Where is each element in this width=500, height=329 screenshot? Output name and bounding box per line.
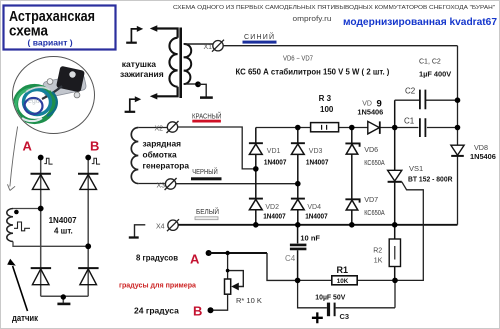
svg-text:1N4007: 1N4007 bbox=[306, 157, 329, 166]
svg-text:10µF 50V: 10µF 50V bbox=[315, 293, 345, 302]
svg-text:обмотка: обмотка bbox=[143, 150, 177, 160]
svg-text:СХЕМА ОДНОГО ИЗ ПЕРВЫХ САМОДЕЛ: СХЕМА ОДНОГО ИЗ ПЕРВЫХ САМОДЕЛЬНЫХ ПЯТИВ… bbox=[173, 5, 495, 11]
svg-text:VD: VD bbox=[362, 101, 372, 108]
svg-text:СИНИЙ: СИНИЙ bbox=[244, 32, 274, 41]
svg-text:R1: R1 bbox=[337, 265, 349, 275]
svg-text:egu: egu bbox=[28, 98, 40, 105]
svg-text:BT 152 - 800R: BT 152 - 800R bbox=[408, 174, 453, 183]
svg-text:C2: C2 bbox=[405, 87, 416, 96]
svg-text:10K: 10K bbox=[337, 278, 349, 285]
svg-text:VS1: VS1 bbox=[409, 164, 423, 173]
svg-text:VD3: VD3 bbox=[309, 148, 323, 155]
svg-text:зажигания: зажигания bbox=[120, 69, 164, 79]
svg-text:1N4007: 1N4007 bbox=[263, 211, 286, 220]
svg-text:зарядная: зарядная bbox=[143, 139, 182, 149]
svg-text:omprofy.ru: omprofy.ru bbox=[293, 14, 332, 23]
svg-text:C3: C3 bbox=[340, 312, 350, 321]
svg-text:В: В bbox=[193, 304, 202, 319]
svg-text:100: 100 bbox=[320, 105, 334, 114]
svg-text:10 nF: 10 nF bbox=[300, 234, 320, 243]
svg-text:С4: С4 bbox=[285, 254, 296, 263]
svg-text:генератора: генератора bbox=[143, 161, 190, 171]
svg-text:1N5406: 1N5406 bbox=[470, 152, 496, 161]
svg-text:1N4007: 1N4007 bbox=[49, 216, 78, 225]
svg-text:КРАСНЫЙ: КРАСНЫЙ bbox=[192, 111, 222, 120]
svg-text:24 градуса: 24 градуса bbox=[134, 306, 179, 316]
svg-text:1K: 1K bbox=[374, 257, 383, 264]
svg-text:X1: X1 bbox=[204, 44, 213, 51]
svg-text:катушка: катушка bbox=[122, 59, 156, 69]
svg-text:R2: R2 bbox=[373, 248, 382, 255]
svg-text:R* 10 K: R* 10 K bbox=[236, 296, 262, 305]
svg-text:БЕЛЫЙ: БЕЛЫЙ bbox=[196, 207, 219, 216]
svg-text:X3: X3 bbox=[157, 183, 166, 190]
svg-text:модернизированная kvadrat67: модернизированная kvadrat67 bbox=[343, 17, 498, 28]
svg-text:КС650А: КС650А bbox=[364, 210, 385, 217]
svg-text:X4: X4 bbox=[156, 224, 165, 231]
svg-text:X2: X2 bbox=[155, 126, 164, 133]
svg-text:А: А bbox=[190, 252, 200, 267]
svg-text:VD1: VD1 bbox=[267, 148, 281, 155]
svg-text:КС 650 А стабилитрон 150 V: КС 650 А стабилитрон 150 V 5 W ( 2 шт. ) bbox=[236, 68, 390, 77]
svg-text:1N4007: 1N4007 bbox=[264, 157, 287, 166]
svg-text:( вариант ): ( вариант ) bbox=[28, 37, 73, 47]
svg-text:VD6: VD6 bbox=[364, 145, 378, 154]
svg-text:А: А bbox=[23, 139, 33, 154]
svg-text:градусы для примера: градусы для примера bbox=[119, 281, 197, 290]
svg-text:C1: C1 bbox=[404, 117, 415, 126]
svg-text:C1, C2: C1, C2 bbox=[419, 59, 441, 66]
svg-text:1µF 400V: 1µF 400V bbox=[419, 70, 451, 79]
svg-text:КС650А: КС650А bbox=[364, 160, 385, 167]
svg-text:ЧЕРНЫЙ: ЧЕРНЫЙ bbox=[192, 167, 218, 176]
svg-text:8 градусов: 8 градусов bbox=[136, 253, 178, 263]
svg-text:1N4007: 1N4007 bbox=[305, 211, 328, 220]
svg-text:VD6 − VD7: VD6 − VD7 bbox=[283, 55, 313, 62]
svg-text:VD2: VD2 bbox=[265, 204, 279, 211]
svg-text:датчик: датчик bbox=[12, 313, 38, 323]
svg-text:4 шт.: 4 шт. bbox=[54, 226, 73, 235]
svg-text:VD8: VD8 bbox=[474, 143, 488, 152]
svg-text:VD4: VD4 bbox=[307, 204, 321, 211]
svg-text:VD7: VD7 bbox=[364, 195, 378, 204]
svg-text:R 3: R 3 bbox=[319, 94, 332, 103]
svg-text:В: В bbox=[90, 139, 99, 154]
svg-text:1N5406: 1N5406 bbox=[357, 108, 383, 117]
